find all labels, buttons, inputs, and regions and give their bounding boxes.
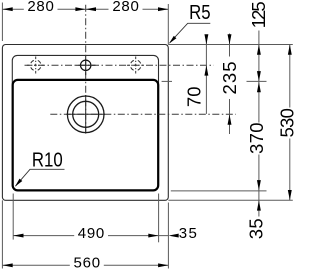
optional tap hole left dashed circle [27,57,45,75]
bottom extension line 490 left [12,194,14,240]
arrow center-right 280 [86,7,96,11]
svg-text:280: 280 [27,0,54,15]
tap hole crosshair [76,64,96,66]
arrow left 280 [2,7,12,11]
arrow 35 horizontal [168,234,178,238]
top dimension extension line right [167,4,169,45]
arrow 530 top [288,45,292,55]
arrow 560 right [158,263,168,267]
sink outer edge rect 560x530 [2,45,168,201]
R5 leader [170,23,210,42]
svg-text:370: 370 [246,122,267,154]
tap hole centerline horizontal [25,64,214,66]
bottom extension line outer left [1,200,3,268]
arrow 530 bottom [288,190,292,200]
dimension 490 line [13,235,168,237]
top dimension extension line left [1,3,3,42]
svg-text:280: 280 [112,0,139,15]
R5 leader arrowhead [169,36,177,44]
svg-text:R5: R5 [189,0,210,23]
svg-text:R10: R10 [32,148,63,171]
arrow center-left 280 [75,7,85,11]
bottom extension line 490 right [158,194,160,243]
drain crosshair [67,113,106,115]
tap hole solid circle [81,60,91,70]
svg-text:490: 490 [78,225,105,242]
arrow 560 left [2,263,12,267]
arrow 125 bottom [257,71,261,81]
bottom extension line outer right [167,203,169,269]
svg-text:560: 560 [74,255,101,272]
svg-text:125: 125 [248,1,269,28]
svg-text:235: 235 [219,62,240,95]
arrow 490 left [13,234,23,238]
dimension 125/370/35 column line [258,31,260,217]
arrow 35 vertical top [257,200,261,210]
arrow 490 right [148,234,158,238]
R10 leader arrowhead [15,179,22,187]
sink top edge extension to right [168,44,292,46]
svg-text:35: 35 [246,218,267,239]
arrow 125 top [257,45,261,55]
dimension line 280 left [2,8,85,10]
arrow 235 top [228,34,232,44]
sink bottom edge extension to right [168,199,292,201]
bowl opening rim inner edge [12,55,158,190]
bowl bottom edge extension [171,190,267,192]
vertical centerline through tap hole and drain [85,5,87,136]
arrow 70 top [204,34,208,44]
svg-text:70: 70 [183,87,204,108]
drain centerline horizontal [50,113,236,115]
dimension line 280 right [86,8,169,10]
bowl bottom rect 490x370 thick [13,80,159,190]
arrow right 280 [158,7,168,11]
arrow 70 bottom [204,65,208,75]
dimension 560 line [2,264,168,266]
dimension 70 line [205,36,207,114]
arrow 370 top [257,82,261,92]
R10 leader [16,169,65,186]
optional tap hole right dashed circle [127,57,145,75]
svg-text:530: 530 [277,108,298,138]
dimension 530 line [289,45,291,201]
arrow 235 bottom [228,114,232,124]
dimension 235 line [229,34,231,135]
svg-text:35: 35 [179,225,197,242]
bowl top edge extension ticks [162,80,172,82]
arrow 370 bottom [257,180,261,190]
drain inner circle [73,101,99,127]
drain outer circle [67,96,104,133]
